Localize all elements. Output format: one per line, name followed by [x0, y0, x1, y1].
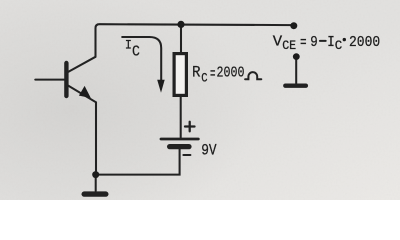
- svg-text:9: 9: [310, 34, 318, 51]
- svg-text:R: R: [192, 64, 201, 82]
- svg-text:C: C: [132, 44, 140, 61]
- svg-text:I: I: [125, 38, 132, 53]
- svg-text:C: C: [201, 70, 207, 85]
- svg-text:2000: 2000: [349, 34, 380, 51]
- svg-text:2000: 2000: [217, 64, 245, 81]
- svg-text:=: =: [210, 65, 216, 83]
- svg-text:V: V: [273, 34, 282, 51]
- svg-text:=: =: [300, 35, 307, 52]
- svg-text:9V: 9V: [201, 142, 217, 160]
- svg-text:I: I: [327, 34, 335, 51]
- svg-text:C: C: [335, 39, 343, 53]
- svg-text:CE: CE: [282, 39, 296, 53]
